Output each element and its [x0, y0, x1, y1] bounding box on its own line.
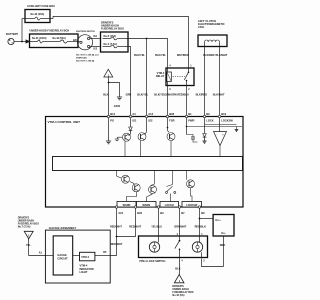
- svg-text:No.40 (20A): No.40 (20A): [31, 13, 45, 16]
- svg-text:LOCKH: LOCKH: [165, 204, 174, 207]
- svg-text:No.7 (7.5A): No.7 (7.5A): [18, 225, 31, 228]
- svg-text:No.42 (50A): No.42 (50A): [53, 37, 66, 40]
- svg-text:LOCKSW: LOCKSW: [186, 204, 198, 207]
- svg-text:UNDER-DASH: UNDER-DASH: [172, 288, 189, 291]
- svg-text:DRIVER'S: DRIVER'S: [18, 216, 30, 219]
- svg-text:UNDER-HOOD FUSE/RELAY BOX: UNDER-HOOD FUSE/RELAY BOX: [30, 30, 70, 33]
- svg-text:IGNITION SWITCH: IGNITION SWITCH: [76, 31, 95, 33]
- svg-text:IG1: HOT in ON (II) and: IG1: HOT in ON (II) and: [76, 54, 99, 56]
- svg-text:GAUGE ASSEMBLY: GAUGE ASSEMBLY: [49, 226, 77, 230]
- svg-text:No.10 (5A): No.10 (5A): [172, 294, 184, 297]
- svg-text:DRIVER'S: DRIVER'S: [172, 285, 184, 288]
- svg-text:IG2: HOT in ON (II): IG2: HOT in ON (II): [76, 61, 95, 63]
- svg-text:WARN: WARN: [142, 204, 150, 207]
- svg-text:FUSE/RELAY BOX: FUSE/RELAY BOX: [172, 291, 194, 294]
- svg-text:WARN: WARN: [123, 204, 131, 207]
- svg-text:FUSE/RELAY BOX: FUSE/RELAY BOX: [18, 222, 40, 225]
- svg-text:VTM-4 CONTROL UNIT: VTM-4 CONTROL UNIT: [48, 120, 81, 124]
- svg-text:UNDER-DASH: UNDER-DASH: [18, 219, 35, 222]
- svg-text:No.41 (100A): No.41 (100A): [32, 37, 47, 40]
